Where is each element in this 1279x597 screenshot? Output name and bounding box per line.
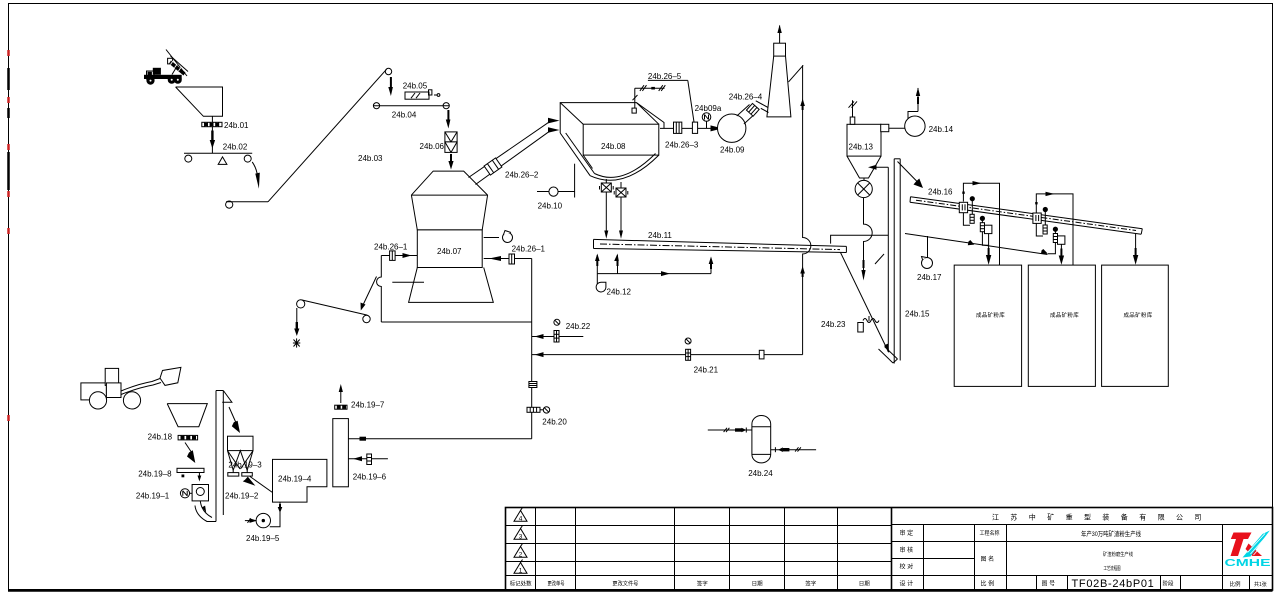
revision triangle 2 xyxy=(514,544,527,559)
flexible joint 24b.23 xyxy=(858,316,879,332)
svg-text:24b.26–1: 24b.26–1 xyxy=(512,245,546,254)
slurry column 24b.19-7 xyxy=(333,419,349,487)
belt conveyor 24b.02 xyxy=(184,153,252,164)
flow arrow 24b.06 to mill xyxy=(448,154,453,170)
svg-text:24b.19–2: 24b.19–2 xyxy=(225,492,259,501)
discharge arrow 24b.02 to 24b.03 xyxy=(252,162,260,189)
wheel loader xyxy=(81,367,181,409)
return duct to column xyxy=(348,437,531,441)
vent stub on 24b.08 roof xyxy=(632,88,638,113)
rotary valve under 24b.13 xyxy=(855,178,872,198)
svg-text:4: 4 xyxy=(519,516,523,523)
svg-text:阶段: 阶段 xyxy=(1163,580,1175,588)
svg-text:24b.19–5: 24b.19–5 xyxy=(246,534,280,543)
reject discharge arrow xyxy=(361,277,377,311)
feeder 24b.18 xyxy=(178,435,198,440)
water spray line 24b.21 xyxy=(532,338,803,360)
vertical mill 24b.07 xyxy=(409,171,494,302)
mixer 24b.19-1 xyxy=(180,485,208,501)
belt conveyor 24b.04 xyxy=(373,103,450,109)
flow arrow feeder to scale xyxy=(185,443,195,464)
transfer chute 24b.11 to elevator xyxy=(841,253,890,354)
air line conveyor top duct xyxy=(831,235,889,243)
svg-text:矿渣粉磨生产线: 矿渣粉磨生产线 xyxy=(1103,551,1133,558)
svg-text:工程名称: 工程名称 xyxy=(980,529,1000,537)
svg-text:24b.02: 24b.02 xyxy=(223,143,248,152)
svg-text:24b.24: 24b.24 xyxy=(748,469,773,478)
svg-text:校 对: 校 对 xyxy=(900,563,914,571)
svg-text:图 名: 图 名 xyxy=(981,555,995,563)
recirculation riser xyxy=(800,65,811,354)
aeration manifold under 24b.11 xyxy=(595,254,713,277)
gas duct bottom header xyxy=(381,321,531,323)
seal fan 24b.10 xyxy=(537,164,575,198)
aeration blower 24b.17 xyxy=(922,236,933,269)
svg-text:CMHE: CMHE xyxy=(1225,558,1272,569)
svg-text:日期: 日期 xyxy=(859,581,871,588)
grinding table line xyxy=(392,281,424,283)
compressed air tank 24b.24 xyxy=(708,416,816,463)
weigh hopper 24b.19-8 xyxy=(177,468,204,481)
silo1 feeder assembly xyxy=(959,181,999,265)
svg-text:比 例: 比 例 xyxy=(981,580,995,588)
air slide conveyor 24b.11 xyxy=(594,239,847,252)
svg-text:签字: 签字 xyxy=(697,580,709,588)
reject drop arrow xyxy=(294,308,299,336)
mixer discharge to elevator xyxy=(195,501,216,522)
svg-text:24b.18: 24b.18 xyxy=(148,433,173,442)
svg-text:24b.21: 24b.21 xyxy=(694,366,719,375)
svg-text:更改单号: 更改单号 xyxy=(548,580,565,588)
svg-text:共1张: 共1张 xyxy=(1254,581,1267,588)
svg-text:24b.07: 24b.07 xyxy=(437,247,462,256)
svg-text:工艺流程图: 工艺流程图 xyxy=(1104,565,1121,572)
border tick marks xyxy=(7,50,10,421)
flow arrow 24b.04 to 24b.06 xyxy=(446,110,451,129)
svg-text:成品矿粉库: 成品矿粉库 xyxy=(1124,311,1153,319)
chute valve 24b.26-2 xyxy=(469,121,552,185)
svg-text:24b.13: 24b.13 xyxy=(849,143,874,152)
main fan 24b.09 xyxy=(718,101,769,143)
twin weigh hoppers 24b.19-3 xyxy=(228,436,254,476)
double-flap airlock 24b.06 xyxy=(445,132,457,153)
drop pipe A xyxy=(604,192,608,239)
duct to fan 24b.14 xyxy=(889,127,905,129)
small bucket elevator xyxy=(216,391,232,522)
pump 24b.19-5 xyxy=(245,513,271,527)
svg-text:24b.26–4: 24b.26–4 xyxy=(729,93,763,102)
svg-text:成品矿粉库: 成品矿粉库 xyxy=(976,311,1005,319)
drain valve 24b.20 xyxy=(527,407,550,413)
svg-text:审 核: 审 核 xyxy=(900,546,914,554)
flow arrow into 24b.02 xyxy=(210,131,215,149)
svg-text:24b.03: 24b.03 xyxy=(358,154,383,163)
screw conveyor 24b.16 xyxy=(910,197,1142,235)
product silo 1 xyxy=(954,265,1021,386)
bucket elevator 24b.15 xyxy=(875,159,900,364)
svg-text:24b.22: 24b.22 xyxy=(566,322,591,331)
svg-text:24b09a: 24b09a xyxy=(695,104,722,113)
transfer 24b.19-2 xyxy=(243,477,273,493)
feeder 24b.01 xyxy=(202,122,222,126)
svg-text:标记处数: 标记处数 xyxy=(510,580,532,588)
svg-text:3: 3 xyxy=(519,534,523,541)
revision header texts xyxy=(510,580,871,588)
svg-text:24b.01: 24b.01 xyxy=(224,121,249,130)
title block row labels xyxy=(900,529,1267,588)
separator outlet pipe xyxy=(660,127,718,129)
aeration blower 24b.12 xyxy=(596,274,606,292)
revision triangle 4 xyxy=(514,508,527,523)
filter discharge drop with hop xyxy=(861,198,872,281)
CMHE logo xyxy=(1225,531,1272,570)
rotary valve B under 24b.08 xyxy=(614,182,628,197)
svg-text:24b.20: 24b.20 xyxy=(542,418,567,427)
svg-text:24b.26–1: 24b.26–1 xyxy=(374,243,408,252)
butterfly valve on riser xyxy=(529,382,537,388)
revision triangle 3 xyxy=(514,526,527,541)
svg-text:24b.04: 24b.04 xyxy=(392,111,417,120)
svg-text:24b.09: 24b.09 xyxy=(720,146,745,155)
svg-text:江苏中矿重型装备有限公司: 江苏中矿重型装备有限公司 xyxy=(992,513,1213,522)
svg-text:24b.19–3: 24b.19–3 xyxy=(228,460,262,469)
flow arrows chute into 24b.08 xyxy=(548,118,560,124)
flow arrow into fan xyxy=(711,125,723,131)
stack brace xyxy=(789,65,804,82)
svg-text:24b.10: 24b.10 xyxy=(538,202,563,211)
instrument N xyxy=(702,113,711,129)
svg-text:年产30万吨矿渣粉生产线: 年产30万吨矿渣粉生产线 xyxy=(1081,529,1141,538)
svg-text:24b.14: 24b.14 xyxy=(929,125,954,134)
drop pipe B xyxy=(619,197,623,239)
svg-text:设 计: 设 计 xyxy=(900,580,914,588)
reject belt conveyor xyxy=(297,300,371,323)
svg-text:24b.19–8: 24b.19–8 xyxy=(138,469,172,478)
svg-text:24b.26–3: 24b.26–3 xyxy=(665,141,699,150)
mixing tank 24b.19-4 xyxy=(273,459,327,502)
svg-text:TF02B-24bP01: TF02B-24bP01 xyxy=(1072,578,1155,590)
aeration air line to silo feeders xyxy=(905,234,1048,255)
gas duct right riser xyxy=(531,259,533,439)
dump truck xyxy=(145,50,189,85)
tank outlet to pump xyxy=(270,502,283,527)
svg-text:24b.26–2: 24b.26–2 xyxy=(505,171,539,180)
svg-text:24b.08: 24b.08 xyxy=(601,142,626,151)
mill vent blower xyxy=(484,231,513,243)
svg-text:24b.17: 24b.17 xyxy=(917,273,942,282)
svg-text:图 号: 图 号 xyxy=(1042,581,1056,588)
svg-text:24b.05: 24b.05 xyxy=(403,82,428,91)
svg-text:24b.12: 24b.12 xyxy=(607,288,632,297)
svg-text:24b.11: 24b.11 xyxy=(648,231,672,240)
filter vent arrow from elevator xyxy=(868,165,888,170)
additive hopper xyxy=(167,404,207,427)
title block grid xyxy=(506,508,1273,591)
revision triangle 1 xyxy=(514,560,527,575)
svg-text:24b.16: 24b.16 xyxy=(928,188,953,197)
gas duct left riser xyxy=(377,256,382,323)
spray line 24b.19-6 xyxy=(348,454,388,465)
vent line 24b.22 xyxy=(532,319,584,342)
fan 24b.14 xyxy=(905,88,925,137)
leader to valve xyxy=(688,80,694,122)
elevator discharge arrow xyxy=(229,407,240,433)
bag filter 24b.13 xyxy=(847,100,889,178)
wire hopper to feeder xyxy=(211,116,213,153)
svg-text:24b.19–4: 24b.19–4 xyxy=(278,475,312,484)
bypass line 24b.26-5 xyxy=(635,85,666,91)
svg-text:签字: 签字 xyxy=(805,580,817,588)
product silo 2 xyxy=(1028,265,1095,386)
svg-text:比例: 比例 xyxy=(1230,580,1242,588)
stack xyxy=(767,25,791,117)
svg-text:审 定: 审 定 xyxy=(900,529,914,537)
receiving hopper xyxy=(176,87,223,116)
feeder above column xyxy=(335,384,347,409)
svg-text:更改文件号: 更改文件号 xyxy=(612,580,638,588)
product silo 3 xyxy=(1102,265,1169,386)
leader arrow to screw conveyor xyxy=(898,162,924,189)
svg-text:日期: 日期 xyxy=(752,581,764,588)
expansion joint 24b.26-3 xyxy=(674,122,682,133)
rotary valve A under 24b.08 xyxy=(600,179,614,192)
svg-text:24b.06: 24b.06 xyxy=(420,142,445,151)
svg-text:2: 2 xyxy=(519,552,523,559)
flow arrow 24b.03 to 24b.04 xyxy=(388,77,393,96)
svg-text:24b.15: 24b.15 xyxy=(905,310,930,319)
separator 24b.08 xyxy=(560,103,664,181)
svg-text:成品矿粉库: 成品矿粉库 xyxy=(1050,311,1079,319)
svg-text:24b.19–7: 24b.19–7 xyxy=(351,401,385,410)
reject pile mark xyxy=(293,338,300,347)
silo3 drop pipe xyxy=(1133,234,1138,265)
svg-text:1: 1 xyxy=(519,568,523,575)
magnetic separator 24b.05 xyxy=(405,90,440,99)
svg-text:24b.23: 24b.23 xyxy=(821,320,846,329)
damper valve on fan inlet xyxy=(692,122,697,133)
inclined belt conveyor 24b.03 xyxy=(226,68,392,208)
silo2 feeder assembly xyxy=(1033,192,1073,265)
svg-text:24b.26–5: 24b.26–5 xyxy=(648,72,682,81)
svg-text:24b.19–1: 24b.19–1 xyxy=(136,492,170,501)
svg-text:24b.19–6: 24b.19–6 xyxy=(353,473,387,482)
